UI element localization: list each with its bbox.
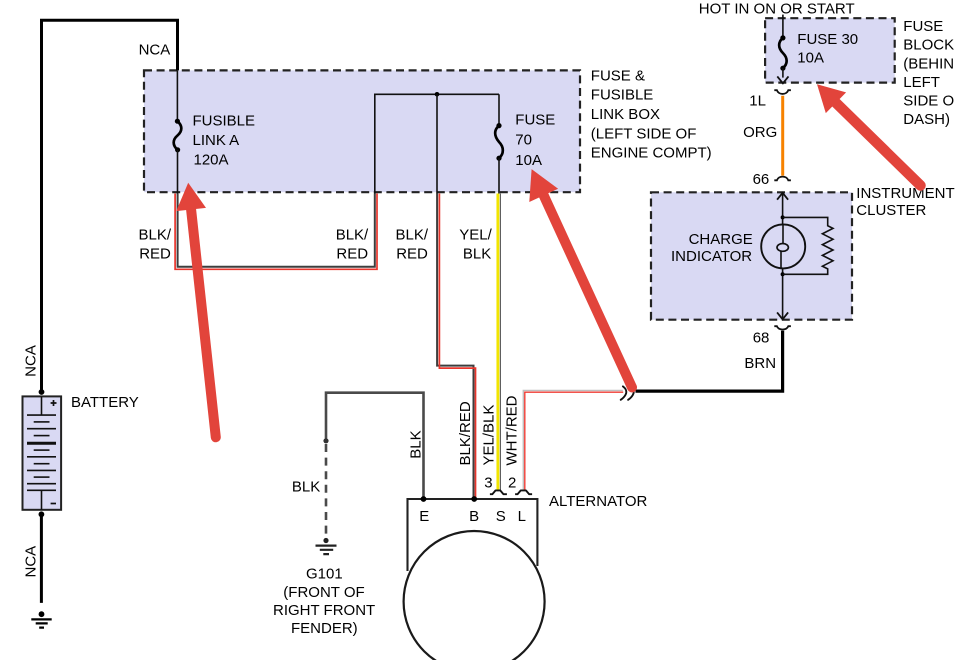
svg-text:BLK: BLK [292,479,320,496]
node lamp top [781,215,785,219]
svg-text:YEL/BLK: YEL/BLK [480,405,497,466]
alternator box [408,499,538,571]
charge indicator lamp [761,224,805,268]
wire junction branch down [436,94,438,193]
node bus junction [435,92,440,97]
svg-text:BLK/: BLK/ [139,226,172,243]
svg-text:3: 3 [484,475,492,492]
svg-text:(BEHIND: (BEHIND [903,55,955,72]
svg-text:NCA: NCA [139,42,171,59]
svg-text:YEL/: YEL/ [459,226,492,243]
svg-text:ALTERNATOR: ALTERNATOR [549,493,648,510]
red arrow 1 to fusible link A [176,183,216,438]
splice connector arcs [621,386,634,399]
wire battery negative NCA [40,514,43,603]
battery minus sign [51,503,56,505]
cluster wire upper [782,193,784,225]
wire BLK/RED to alternator B gray [437,194,473,498]
svg-text:HOT IN ON OR START: HOT IN ON OR START [699,0,855,17]
node G101 wire top [323,438,328,443]
fuse block (fuse 30) box [765,18,895,82]
wire YEL/BLK yellow [496,194,499,491]
battery plus sign [51,400,57,406]
wire WHT/RED white [523,390,623,489]
wire into fusible link A [176,70,178,119]
cluster wire lower [782,268,784,318]
svg-text:FUSE 30: FUSE 30 [797,31,858,48]
svg-text:RIGHT FRONT: RIGHT FRONT [273,602,375,619]
svg-text:WHT/RED: WHT/RED [504,395,521,465]
resistor in cluster [783,217,833,274]
svg-text:RED: RED [139,245,171,262]
alternator circle [404,531,545,660]
ground battery [31,611,51,627]
svg-text:DASH): DASH) [903,111,950,128]
svg-text:BLK: BLK [408,430,425,458]
svg-text:BLK: BLK [463,245,491,262]
arrow up at cluster pin 66 [777,193,788,200]
svg-text:(FRONT OF: (FRONT OF [283,584,364,601]
connector 68 cup [774,326,791,329]
svg-text:G101: G101 [306,566,343,583]
svg-text:FUSE: FUSE [515,111,555,128]
wire YEL/BLK black stripe [499,194,501,491]
svg-text:ENGINE COMPT): ENGINE COMPT) [591,145,712,162]
arrow down at cluster pin 68 [777,312,788,319]
svg-text:ORG: ORG [743,124,777,141]
svg-text:RED: RED [336,245,368,262]
node lamp bottom [781,272,785,276]
svg-text:L: L [518,508,526,525]
svg-text:FUSIBLE: FUSIBLE [193,113,256,130]
svg-text:BLK/: BLK/ [396,226,429,243]
arrow down at fuse block pin 1L [777,76,788,83]
svg-text:1L: 1L [749,92,766,109]
svg-text:BLK/RED: BLK/RED [457,401,474,465]
red arrow 3 to fuse 30 [817,84,921,185]
svg-text:NCA: NCA [23,345,40,377]
svg-text:FUSIBLE: FUSIBLE [591,87,654,104]
wire NCA from battery to fusible link box [42,20,178,391]
svg-text:E: E [419,508,429,525]
wire fusible link A to box edge [177,150,179,194]
wire ORG [781,96,784,176]
svg-text:BLK/: BLK/ [336,226,369,243]
wire fuse 30 to arrow [782,68,784,77]
svg-text:68: 68 [753,330,770,347]
wire into fuse 70 [498,94,500,123]
svg-text:120A: 120A [194,152,229,169]
svg-text:BATTERY: BATTERY [71,394,139,411]
svg-text:10A: 10A [797,50,824,67]
svg-text:FENDER): FENDER) [291,620,358,637]
svg-text:INDICATOR: INDICATOR [671,248,752,265]
wire BLK alternator E to G101 [326,393,424,498]
svg-text:LEFT: LEFT [903,74,940,91]
node alternator B [471,496,477,502]
wire inside box up to bus [375,94,499,193]
svg-text:S: S [496,508,506,525]
connector cup alternator S [490,490,507,494]
wire BLK/RED U-loop gray [178,194,375,267]
fuse 70 symbol [495,123,503,161]
fusible link A symbol [174,119,182,153]
node battery positive [39,389,45,395]
svg-text:BLOCK: BLOCK [903,37,954,54]
svg-text:(LEFT SIDE OF: (LEFT SIDE OF [591,125,697,142]
svg-text:B: B [469,508,479,525]
svg-text:FUSE: FUSE [903,18,943,35]
svg-text:INSTRUMENT: INSTRUMENT [856,185,954,202]
svg-text:70: 70 [515,132,532,149]
svg-text:66: 66 [753,171,770,188]
fuse & fusible link box [144,70,580,192]
instrument cluster box [651,192,852,319]
wire BLK/RED U-loop red stripe [175,194,377,270]
red arrow 2 to fuse 70 [529,169,632,387]
node alternator E [421,496,427,502]
battery BAT1 plates [27,396,56,509]
svg-text:LINK A: LINK A [193,132,240,149]
wire BRN from instrument cluster [636,331,783,392]
svg-text:RED: RED [396,245,428,262]
svg-text:NCA: NCA [23,546,40,578]
wire fuse 70 to box edge [498,158,500,193]
wire WHT/RED red [525,392,623,490]
wire hot in on or start [782,15,784,36]
wire BLK dashed to G101 [325,444,328,536]
svg-text:2: 2 [508,475,516,492]
wire BLK/RED to alternator B red stripe [439,194,475,498]
ground G101 [316,538,337,554]
svg-text:BRN: BRN [744,355,776,372]
svg-text:LINK BOX: LINK BOX [591,106,660,123]
svg-text:FUSE &: FUSE & [591,67,645,84]
fuse 30 symbol [779,35,787,70]
node battery negative [39,511,45,517]
svg-text:10A: 10A [515,152,542,169]
battery box [23,396,62,509]
svg-text:CLUSTER: CLUSTER [856,202,926,219]
svg-text:CHARGE: CHARGE [689,231,753,248]
connector cup alternator L [515,490,532,494]
svg-text:SIDE OF: SIDE OF [903,93,955,110]
connector 66 cup [774,177,791,181]
connector 1L cup [774,90,791,94]
